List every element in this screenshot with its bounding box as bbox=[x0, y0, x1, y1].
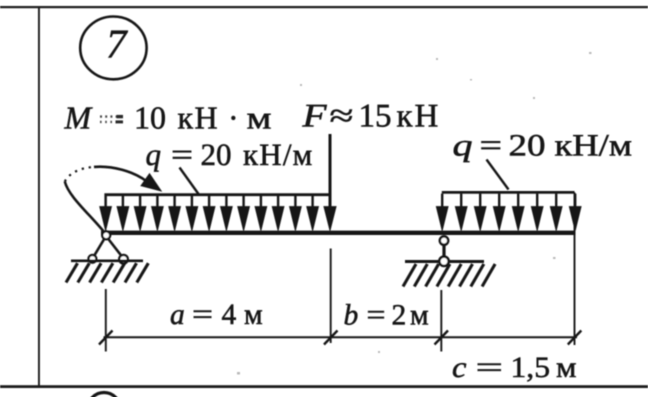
moment arrow M arc (solid lower-left branch) bbox=[65, 182, 105, 233]
ground line A bbox=[71, 259, 143, 262]
extension line at roller support bbox=[440, 290, 442, 352]
extension line at left support bbox=[105, 289, 107, 352]
ground hatching A bbox=[66, 263, 148, 282]
roller support B lower circle bbox=[439, 257, 448, 266]
distributed load q1 top line bbox=[104, 193, 331, 196]
moment arrow M arc (solid top-right branch) bbox=[94, 167, 147, 182]
frame bottom border bbox=[0, 385, 648, 388]
svg-text:F≈15кН: F≈15кН bbox=[301, 98, 440, 134]
moment arrow M arrowhead bbox=[142, 174, 161, 190]
svg-text:7: 7 bbox=[106, 20, 128, 66]
pin support A right base circle bbox=[119, 255, 128, 264]
dimension tick 3 bbox=[435, 331, 449, 345]
moment arrow M arc (dotted top-left segment) bbox=[65, 167, 94, 182]
dimension line bbox=[104, 336, 578, 338]
extension line / beam end right bbox=[574, 192, 576, 345]
frame left border bbox=[38, 7, 40, 386]
leader line left q bbox=[180, 168, 199, 195]
scan speckles bbox=[237, 52, 592, 375]
pin support A left base circle bbox=[89, 255, 97, 263]
next-figure number circle (partial, bottom edge) bbox=[88, 393, 120, 397]
svg-text:q=20кН/м: q=20кН/м bbox=[453, 128, 633, 163]
distributed load q1 left edge bbox=[104, 195, 106, 210]
dimension tick 2 bbox=[324, 331, 338, 345]
beam bbox=[101, 231, 576, 235]
ground line B bbox=[405, 260, 484, 263]
frame top border bbox=[0, 6, 648, 8]
dimension tick 4 bbox=[568, 331, 582, 345]
distributed load q2 top line bbox=[442, 191, 575, 194]
dimension tick 1 bbox=[99, 331, 113, 345]
distributed load q1 arrows bbox=[100, 196, 319, 230]
force F arrowhead bbox=[324, 207, 336, 231]
svg-text:q=20кН/м: q=20кН/м bbox=[146, 137, 314, 172]
pin support A triangle right leg bbox=[106, 236, 124, 259]
roller support B upper pin circle bbox=[440, 236, 448, 244]
distributed load q2 arrows bbox=[436, 194, 581, 231]
force F arrow line bbox=[329, 134, 332, 210]
pin support A triangle left leg bbox=[93, 236, 107, 259]
label M = 10 kNm (faded equals sign drawn as broken bars) bbox=[100, 117, 123, 122]
pin support A pin circle bbox=[102, 231, 110, 239]
ground hatching B bbox=[403, 264, 495, 287]
leader line right q bbox=[487, 160, 509, 190]
figure number circle bbox=[80, 17, 146, 80]
roller support B link bbox=[442, 245, 445, 258]
extension line under force F bbox=[330, 249, 332, 344]
